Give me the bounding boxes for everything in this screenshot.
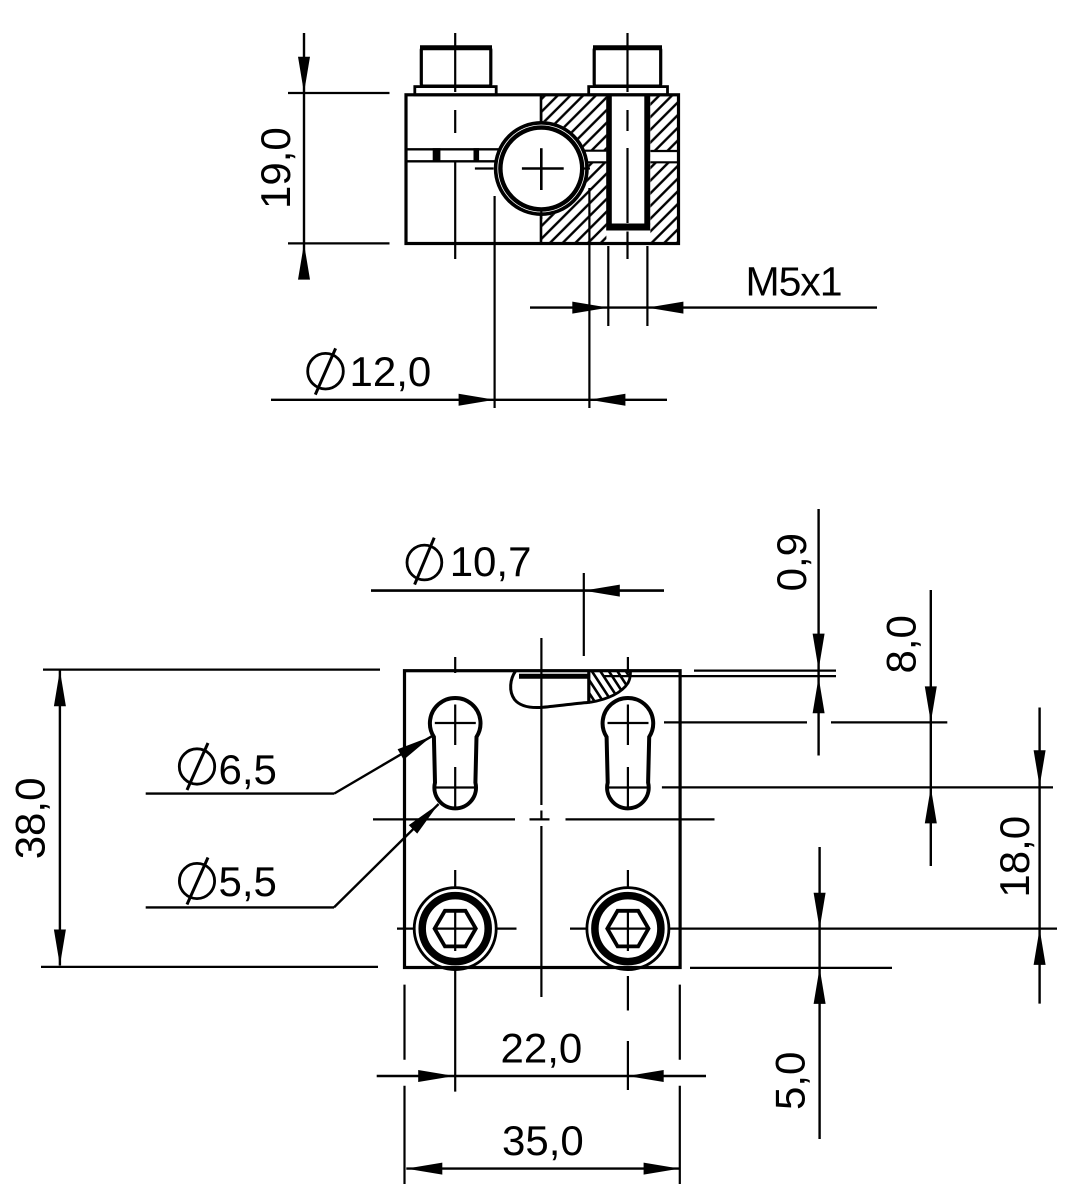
slit white band through hatched areas (570, 151, 678, 163)
hatch section area right of tapped hole (650, 96, 678, 242)
left slot Ø6,5/Ø5,5 keyhole (430, 698, 481, 808)
clamp block outline (front view) (405, 671, 681, 968)
Ø10,7 dimension line and arrow (371, 585, 664, 597)
left screw horizontal centerline (397, 927, 517, 929)
slit dark marks (433, 148, 479, 162)
tapped hole bottom bar (606, 224, 650, 231)
top face extension line (694, 669, 836, 671)
hatch section area left of tapped hole (541, 96, 606, 242)
dimension text 0,9 (768, 533, 815, 591)
dimension text Ø 5,5 (179, 858, 276, 905)
svg-text:0,9: 0,9 (768, 533, 815, 591)
Ø12 extension lines (495, 188, 590, 408)
tapped hole M5 wall right (644, 96, 650, 225)
M5x1 dimension line and arrows (530, 302, 877, 314)
dimension 18,0 line and arrows (1034, 708, 1046, 1004)
dimension text 8,0 (878, 615, 925, 673)
dimension text 35,0 (502, 1117, 584, 1164)
dimension text 38,0 (7, 778, 54, 860)
dimension 19,0 extension lines (288, 93, 390, 243)
clamp slit left lines (406, 149, 499, 161)
svg-text:5,5: 5,5 (219, 858, 277, 905)
clamp block outline (top view) (406, 95, 679, 244)
left screw flange washer (415, 87, 496, 95)
break-out arc boundary (591, 672, 631, 703)
extension line lower hole centers (662, 786, 1053, 788)
M5x1 extension lines (608, 246, 647, 326)
svg-text:8,0: 8,0 (878, 615, 925, 673)
svg-text:19,0: 19,0 (252, 127, 299, 209)
dimension 8,0 line and arrows (925, 590, 937, 866)
dimension 0,9 line and arrows (813, 509, 825, 756)
dimension text 5,0 (767, 1052, 814, 1110)
svg-text:6,5: 6,5 (219, 746, 277, 793)
left column centerline (454, 657, 456, 1092)
dimension text M5x1 (746, 259, 843, 305)
dimension 22,0 line and arrows (377, 1070, 706, 1082)
dimension text 19,0 (252, 127, 299, 209)
Ø10,7 extension line (583, 573, 585, 656)
bore Ø12 circle (double ring) (496, 123, 587, 214)
dimension 19,0 line and arrows (298, 33, 310, 280)
left screw centerline (454, 33, 456, 259)
bore center mark (475, 112, 590, 219)
block vertical centerline (540, 638, 542, 997)
leader Ø5,5 (146, 804, 439, 907)
right screw flange washer (589, 87, 668, 95)
dimension 38,0 extension lines (41, 670, 380, 967)
svg-text:38,0: 38,0 (7, 778, 54, 860)
break-out boundary vertical (587, 672, 590, 702)
left screw head (420, 48, 492, 87)
extension line upper hole centers (664, 721, 947, 723)
clamp slit lines in section (585, 151, 679, 163)
leader Ø6,5 (146, 736, 432, 793)
svg-text:12,0: 12,0 (350, 348, 432, 395)
tapped hole M5 wall left (606, 96, 612, 225)
section boundary line (540, 96, 543, 242)
svg-text:10,7: 10,7 (450, 538, 532, 585)
dimension text 18,0 (991, 816, 1038, 898)
dimension 38,0 line and arrows (54, 670, 66, 966)
counterbore bottom edge 0,9 deep (519, 674, 836, 679)
dimension text Ø 10,7 (407, 538, 531, 586)
right column centerline (627, 657, 629, 1090)
break-out section hatch at Ø10,7 counterbore (589, 672, 631, 703)
dimension text Ø 12,0 (308, 348, 432, 395)
right screw head (593, 48, 662, 87)
right hex socket screw head (587, 888, 669, 970)
dimension 35,0 dashed extension lines (405, 985, 680, 1184)
right slot Ø6,5/Ø5,5 keyhole (603, 698, 654, 808)
svg-text:M5x1: M5x1 (746, 259, 843, 305)
dimension text 22,0 (501, 1025, 583, 1072)
dimension text Ø 6,5 (179, 743, 277, 793)
svg-text:18,0: 18,0 (991, 816, 1038, 898)
svg-text:35,0: 35,0 (502, 1117, 584, 1164)
svg-text:5,0: 5,0 (767, 1052, 814, 1110)
dimension 35,0 line and arrows (406, 1163, 679, 1175)
left slot center marks (435, 705, 476, 808)
right screw horizontal centerline and extension (570, 927, 1057, 929)
dimension 5,0 line and arrows (814, 847, 826, 1139)
freehand break line (511, 671, 591, 708)
svg-text:22,0: 22,0 (501, 1025, 583, 1072)
block horizontal centerline (373, 818, 715, 820)
right screw centerline (626, 33, 628, 259)
bore Ø12 white interior (494, 121, 589, 216)
right slot center marks (608, 705, 649, 808)
Ø12 dimension line and arrows (271, 394, 667, 406)
left hex socket screw head (414, 888, 496, 970)
block bottom extension line (690, 967, 892, 969)
